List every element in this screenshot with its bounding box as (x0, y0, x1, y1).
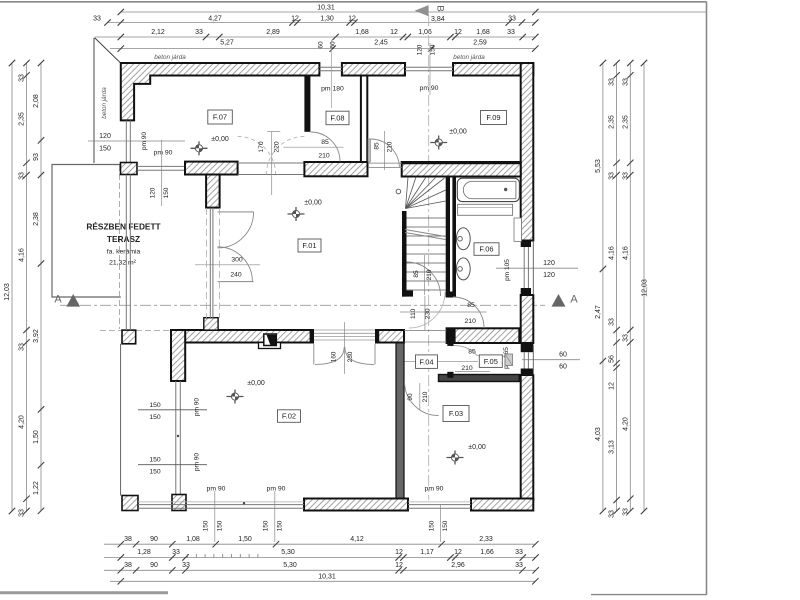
svg-text:33: 33 (172, 549, 180, 556)
svg-text:210: 210 (387, 141, 394, 152)
svg-text:12: 12 (454, 549, 462, 556)
svg-text:RÉSZBEN FEDETT: RÉSZBEN FEDETT (86, 222, 160, 232)
svg-text:2,33: 2,33 (479, 536, 493, 543)
shelf right wall bath (514, 218, 522, 241)
pillar bottom-left corner (122, 496, 138, 511)
svg-text:2,35: 2,35 (622, 115, 629, 129)
svg-text:110: 110 (410, 308, 417, 319)
terrace double door leaf 1 and arc (218, 211, 254, 213)
window top wall F.09 (120/150) (405, 66, 453, 68)
terrace double door leaf 2 and arc (218, 281, 254, 283)
terrace door wall-edge dashes (205, 208, 207, 318)
svg-text:2,59: 2,59 (473, 40, 487, 47)
svg-text:150: 150 (203, 520, 210, 531)
svg-text:150: 150 (149, 402, 161, 409)
svg-text:F.04: F.04 (419, 357, 433, 366)
door jamb cap F.02 left (310, 329, 314, 343)
annotation 85/210 stairs door rotated (424, 255, 426, 295)
door jamb knob lower (447, 372, 453, 378)
level mark F.01 (288, 213, 305, 215)
svg-text:12,03: 12,03 (642, 279, 649, 297)
pillar terrace top (at F.07 corner) (121, 163, 138, 175)
opening threshold hall-corridor (404, 330, 447, 332)
svg-text:150: 150 (217, 520, 224, 531)
svg-text:33: 33 (507, 29, 515, 36)
svg-text:210: 210 (461, 365, 473, 372)
svg-text:33: 33 (515, 562, 523, 569)
level mark F.02 (227, 396, 244, 398)
svg-text:pm 90: pm 90 (194, 453, 201, 471)
svg-text:F.09: F.09 (486, 113, 500, 122)
svg-text:90: 90 (150, 536, 158, 543)
hall window dim 60/60 pm165 (503, 347, 580, 371)
svg-text:90: 90 (407, 393, 414, 401)
wall right outer middle (521, 295, 534, 343)
svg-text:F.01: F.01 (302, 241, 316, 250)
wall right black cap above bath window (521, 241, 531, 248)
wall right black cap above hall window (521, 343, 534, 352)
svg-text:21,32 m²: 21,32 m² (109, 260, 137, 267)
page frame bottom-right line (591, 594, 707, 596)
svg-text:1,68: 1,68 (355, 29, 369, 36)
door F.09 leaf and arc (368, 139, 370, 162)
terrace door dim 300/240 (195, 264, 260, 266)
svg-text:±0,00: ±0,00 (449, 129, 467, 136)
wall F.02 bottom (304, 499, 408, 511)
svg-text:2,47: 2,47 (595, 305, 602, 319)
svg-text:1,68: 1,68 (476, 29, 490, 36)
bottom dimension chain row 4 (10,31) (110, 573, 539, 584)
svg-text:2,35: 2,35 (19, 112, 26, 126)
dimension chain row 4 (5,27/2,45/2,59) (110, 40, 539, 56)
svg-text:pm 90: pm 90 (267, 485, 286, 492)
door arc F.08 (310, 132, 340, 162)
svg-text:1,08: 1,08 (186, 536, 200, 543)
svg-text:120: 120 (543, 260, 555, 267)
wall above stairs / F.09 bottom right section (402, 162, 521, 177)
svg-text:1,06: 1,06 (418, 29, 432, 36)
opening threshold F.07 to hall (238, 162, 305, 164)
svg-text:4,03: 4,03 (595, 427, 602, 441)
svg-text:56: 56 (609, 355, 616, 363)
bottom dimension chain row 2 (1,28/33/5,30/12/1,17/12/1,68/33) (104, 549, 539, 561)
svg-text:33: 33 (609, 318, 616, 326)
annotation 85/210 F.08 door (283, 146, 343, 148)
wall divider F.07/F.08 (304, 76, 310, 132)
wall top-left with corner column (121, 63, 320, 120)
svg-text:85: 85 (373, 142, 380, 150)
svg-text:2,45: 2,45 (374, 40, 388, 47)
room label F.05 (479, 355, 502, 368)
window F.02 bottom (138, 501, 304, 503)
dimension chain row 10,31 (118, 5, 707, 16)
wall F.02 top left part (171, 330, 313, 343)
wall divider F.08/F.09 (361, 76, 367, 165)
bathtub (457, 178, 519, 201)
svg-text:210: 210 (426, 269, 433, 280)
window F.03 bottom (408, 501, 471, 503)
left window dim 120/150 (88, 133, 185, 153)
pillar terrace mid-left (122, 330, 136, 344)
svg-text:TERASZ: TERASZ (107, 234, 140, 244)
window terrace top edge (137, 165, 185, 167)
svg-text:33: 33 (182, 562, 190, 569)
svg-text:120: 120 (417, 44, 424, 55)
door arc stairs (407, 262, 441, 296)
svg-text:5,53: 5,53 (595, 159, 602, 173)
svg-text:4,16: 4,16 (622, 246, 629, 260)
svg-text:33: 33 (609, 172, 616, 180)
svg-text:±0,00: ±0,00 (468, 444, 486, 451)
room label F.08 (326, 111, 349, 125)
terrace dashed edge line (119, 165, 121, 329)
section line A-A dash-dot (60, 304, 545, 306)
door F.02 double leaf curves (313, 344, 315, 365)
page frame top line (0, 1, 707, 3)
window centerline F.09 (429, 43, 431, 95)
toilet 1 (456, 228, 470, 250)
room label F.07 (208, 110, 233, 124)
svg-text:33: 33 (19, 74, 26, 82)
door leaf pocket F.05 (505, 354, 513, 366)
svg-text:33: 33 (93, 16, 101, 23)
svg-text:12,03: 12,03 (4, 283, 11, 301)
svg-text:1,28: 1,28 (137, 549, 151, 556)
annotation 170/220 opening (271, 132, 273, 195)
svg-text:1,17: 1,17 (420, 549, 434, 556)
wall right outer upper (F.09, bath) (521, 63, 534, 241)
svg-text:150: 150 (277, 520, 284, 531)
svg-text:33: 33 (622, 508, 629, 516)
left dimension chain middle (33/2,35/33/4,16/33/4,20/33) (19, 60, 30, 517)
chimney symbol black square (264, 334, 277, 346)
svg-text:2,38: 2,38 (33, 212, 40, 226)
svg-text:beton járda: beton járda (154, 54, 186, 61)
door threshold F.09-hall door (368, 162, 402, 164)
opening dashed arcs F.07-hall (238, 137, 305, 175)
svg-text:33: 33 (19, 343, 26, 351)
svg-text:12: 12 (390, 29, 398, 36)
svg-text:150: 150 (149, 469, 161, 476)
svg-text:pm 180: pm 180 (321, 86, 344, 93)
svg-text:pm 90: pm 90 (207, 485, 226, 492)
svg-text:3,92: 3,92 (33, 329, 40, 343)
svg-text:33: 33 (19, 509, 26, 517)
svg-text:12: 12 (454, 29, 462, 36)
wall F.02 top right part (376, 330, 404, 343)
svg-text:240: 240 (230, 271, 242, 278)
svg-text:12: 12 (348, 16, 356, 23)
pillar bottom mid (F.02 left) (172, 495, 186, 511)
right dimension chain 3 (33/2,35/33/4,16/33/4,20/33) (622, 60, 633, 516)
section line B vertical dash-dot (428, 15, 430, 500)
svg-text:4,20: 4,20 (19, 415, 26, 429)
svg-text:150: 150 (430, 44, 437, 55)
svg-text:5,27: 5,27 (220, 40, 234, 47)
svg-text:120: 120 (99, 133, 111, 140)
right dimension chain 2 (33/2,35/33/4,16/33/56/12/3,13/33) (609, 60, 620, 518)
svg-text:pm 90: pm 90 (154, 150, 173, 157)
wall right black cap below bath window (521, 288, 531, 295)
svg-text:33: 33 (195, 29, 203, 36)
stair right wall (446, 177, 450, 298)
sidewalk left edge (93, 38, 95, 163)
washer under tub (458, 204, 513, 215)
svg-text:10,31: 10,31 (318, 573, 336, 580)
door jamb cap F.02 right (375, 329, 379, 343)
svg-text:220: 220 (274, 141, 281, 153)
svg-text:±0,00: ±0,00 (304, 200, 322, 207)
door jamb knob upper (447, 341, 453, 346)
svg-text:12: 12 (395, 562, 403, 569)
bottom dimension chain row 1 (38/90/1,08/1,50/4,12/2,33) (104, 536, 539, 547)
dimension chain row 3 (2,12/33/2,89/...) (95, 29, 539, 40)
svg-text:pm 90: pm 90 (194, 398, 201, 416)
svg-text:12: 12 (609, 382, 616, 390)
terrace outline (52, 165, 121, 298)
svg-text:10,31: 10,31 (317, 5, 335, 12)
svg-text:2,89: 2,89 (266, 29, 280, 36)
wall F.08 bottom (304, 162, 367, 176)
niche door dim 85/210 (455, 349, 503, 372)
window band hall left side (125, 175, 127, 331)
chimney flue notch (259, 343, 281, 349)
svg-text:150: 150 (263, 520, 270, 531)
svg-text:F.07: F.07 (213, 113, 227, 122)
wall top band right F.09 (453, 63, 533, 76)
svg-text:33: 33 (622, 172, 629, 180)
svg-text:2,08: 2,08 (33, 94, 40, 108)
stair left wall (402, 211, 407, 297)
svg-text:1,30: 1,30 (320, 16, 334, 23)
annotation 120/150 left window (161, 140, 163, 206)
stairs treads and winders (396, 177, 446, 290)
svg-text:210: 210 (318, 153, 330, 160)
right dimension chain outer (5,53/2,47/4,03) (595, 60, 606, 514)
svg-text:120: 120 (543, 272, 555, 279)
svg-text:33: 33 (508, 16, 516, 23)
svg-text:60: 60 (318, 41, 325, 49)
svg-text:F.02: F.02 (282, 412, 296, 421)
section marker A right triangle (552, 294, 566, 307)
room label F.06 (474, 243, 499, 256)
left dimension chain 12,03 (4, 60, 15, 514)
svg-text:pm 90: pm 90 (420, 85, 439, 92)
label leader line F.04-F.05 (400, 361, 478, 363)
wall top band between windows F.08-F.09 (342, 63, 405, 76)
level mark F.03 (447, 457, 464, 459)
svg-text:pm 90: pm 90 (141, 132, 148, 150)
svg-text:12: 12 (395, 549, 403, 556)
door arc bath F.06 (453, 297, 484, 328)
svg-text:60: 60 (559, 352, 567, 359)
svg-text:1,50: 1,50 (33, 430, 40, 444)
room label F.09 (481, 111, 507, 125)
svg-text:38: 38 (124, 536, 132, 543)
wall right outer lower (F.03) (521, 375, 534, 500)
svg-text:150: 150 (149, 457, 161, 464)
opening arc corridor (110/230) (409, 292, 445, 328)
svg-text:B: B (434, 5, 445, 11)
terrace door window (209, 208, 211, 318)
svg-text:210: 210 (465, 318, 477, 325)
page footer thick line bottom-left (0, 591, 168, 594)
window top wall F.08 (60/60) (319, 66, 342, 68)
terrace dashed line at wall extension (100, 329, 171, 331)
annotation 85/210 F.09 door rotated (384, 131, 386, 170)
room label F.03 (443, 406, 469, 422)
svg-text:A: A (54, 294, 62, 306)
svg-text:5,30: 5,30 (281, 549, 295, 556)
chimney stem above wall (204, 318, 218, 330)
level mark F.09 (430, 142, 447, 144)
sidewalk corner diagonal (95, 38, 121, 63)
svg-text:93: 93 (33, 153, 40, 161)
wall divider F.02/F.03 (396, 343, 404, 499)
svg-text:1,22: 1,22 (33, 481, 40, 495)
svg-text:90: 90 (150, 562, 158, 569)
annotation 110/230 corridor opening rotated (424, 296, 426, 330)
svg-text:4,16: 4,16 (609, 246, 616, 260)
wall T-bar F.07 bottom (185, 162, 238, 175)
annotation 90/210 F.03 door rotated (419, 383, 421, 410)
svg-text:F.06: F.06 (479, 245, 493, 254)
svg-text:2,96: 2,96 (451, 562, 465, 569)
svg-text:60: 60 (330, 41, 337, 49)
annotation 150/150 pm90 F.02 upper (138, 409, 207, 411)
svg-text:150: 150 (163, 187, 170, 198)
section marker A left triangle (66, 294, 80, 307)
svg-text:33: 33 (515, 549, 523, 556)
window right wall bath (120/120) (523, 247, 525, 288)
svg-text:33: 33 (609, 510, 616, 518)
svg-text:F.05: F.05 (484, 357, 498, 366)
wall T-stem terrace door pier (206, 175, 220, 208)
room label F.01 (298, 239, 321, 252)
window left wall below corner (125, 120, 127, 162)
door threshold F.02 double door (314, 329, 375, 331)
page frame right line (706, 2, 708, 595)
svg-text:4,16: 4,16 (19, 248, 26, 262)
svg-text:33: 33 (19, 172, 26, 180)
svg-text:60: 60 (559, 364, 567, 371)
left dimension chain inner (2,08/93/2,38/3,92/1,50/1,22) (33, 60, 44, 514)
section marker B triangle (415, 5, 429, 16)
svg-text:pm 90: pm 90 (425, 485, 444, 492)
svg-text:F.08: F.08 (330, 114, 344, 123)
svg-text:12: 12 (291, 16, 299, 23)
svg-text:fa. kerámia: fa. kerámia (107, 249, 141, 256)
svg-text:4,12: 4,12 (350, 536, 364, 543)
svg-text:150: 150 (99, 146, 111, 153)
wall F.03 bottom (471, 499, 533, 511)
svg-text:38: 38 (124, 562, 132, 569)
bath window dim 120/120 pm105 (496, 259, 578, 281)
bath left wall (452, 177, 456, 294)
svg-text:beton járda: beton járda (453, 54, 485, 61)
svg-text:230: 230 (347, 351, 354, 362)
svg-text:4,27: 4,27 (208, 16, 222, 23)
terrace open edge line left (120, 344, 122, 496)
svg-text:85: 85 (321, 139, 329, 146)
svg-text:85: 85 (467, 302, 475, 309)
svg-text:±0,00: ±0,00 (211, 136, 229, 143)
toilet 2 (456, 258, 470, 280)
svg-text:150: 150 (149, 414, 161, 421)
svg-text:1,66: 1,66 (480, 549, 494, 556)
svg-text:F.03: F.03 (449, 409, 463, 418)
svg-text:85: 85 (413, 270, 420, 278)
wall F.02 left (171, 330, 185, 381)
level mark F.07 (191, 147, 208, 149)
svg-text:A: A (570, 294, 578, 306)
svg-text:beton járda: beton járda (101, 87, 108, 119)
svg-text:±0,00: ±0,00 (247, 380, 265, 387)
window centerline F.08 (330, 40, 332, 108)
room label F.02 (278, 410, 301, 423)
bottom dimension chain row 3 (38/90/33/5,30/12/2,96/33) (104, 562, 539, 574)
svg-text:3,84: 3,84 (431, 16, 445, 23)
svg-text:150: 150 (429, 520, 436, 531)
svg-text:3,13: 3,13 (609, 440, 616, 454)
svg-text:2,35: 2,35 (609, 115, 616, 129)
svg-text:210: 210 (422, 391, 429, 402)
door arc F.03 (405, 382, 439, 416)
svg-text:160: 160 (331, 351, 338, 362)
svg-text:pm 105: pm 105 (504, 259, 511, 281)
room label F.04 (416, 355, 438, 369)
svg-text:4,20: 4,20 (622, 417, 629, 431)
svg-text:150: 150 (442, 520, 449, 531)
dimension chain row 2 (33/4,27/12/1,30/12/3,84/33) (93, 16, 538, 26)
svg-text:33: 33 (622, 78, 629, 86)
svg-text:33: 33 (609, 78, 616, 86)
svg-text:300: 300 (231, 256, 243, 263)
wall corridor bottom (corridor/F.03) (439, 375, 520, 382)
annotation 160/230 F.02 door rotated (344, 322, 346, 374)
svg-text:1,50: 1,50 (238, 536, 252, 543)
door arc niche F.05 (451, 346, 478, 356)
svg-text:120: 120 (150, 187, 157, 198)
wall right black cap below hall window (521, 369, 534, 376)
svg-text:33: 33 (622, 334, 629, 342)
svg-text:230: 230 (424, 308, 431, 319)
annotation 150/150 pm90 F.02 lower (138, 464, 207, 466)
svg-text:2,12: 2,12 (151, 29, 165, 36)
window F.02 left wall (175, 381, 177, 495)
wall corridor top (hall/corridor) (447, 328, 520, 343)
right dimension chain 12,03 (641, 60, 649, 514)
svg-text:170: 170 (258, 141, 265, 153)
svg-text:5,30: 5,30 (283, 562, 297, 569)
window right wall hall (60/60) (523, 352, 525, 368)
